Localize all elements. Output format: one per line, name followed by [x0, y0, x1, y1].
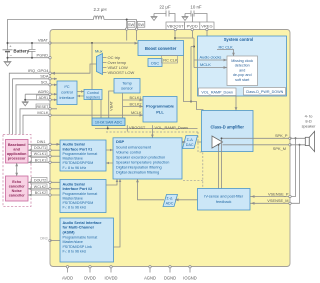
wire VBAT to SAR ADC [108, 91, 114, 118]
label AGND [144, 276, 156, 281]
dashed box host system [3, 135, 31, 207]
bottom supply pins [66, 266, 191, 273]
programmable PLL [143, 97, 177, 123]
wire VBAT internal to boost [50, 42, 138, 45]
wire VBAT [7, 38, 51, 44]
svg-text:VBOOST: VBOOST [129, 125, 146, 130]
temp sensor [114, 79, 140, 94]
svg-text:Missing clock: Missing clock [231, 59, 253, 63]
svg-text:VBAT: VBAT [38, 38, 49, 43]
svg-text:Digital decimation filtering: Digital decimation filtering [116, 171, 159, 175]
wire BCLK2 to PLL [123, 102, 143, 108]
system control box [198, 36, 287, 96]
svg-text:SW: SW [128, 22, 135, 27]
svg-text:IRQ_GPO4: IRQ_GPO4 [28, 68, 49, 73]
wire WCLK1 [28, 151, 60, 157]
svg-text:and: and [239, 68, 245, 72]
svg-text:SCL: SCL [41, 80, 50, 85]
wire WCLK2 [28, 184, 60, 190]
svg-text:VBAT: VBAT [108, 101, 113, 111]
wire system control to class-D [235, 96, 238, 111]
wire MCLK [23, 110, 143, 135]
wire VSENSE_M [250, 144, 301, 205]
svg-text:Class-D_PWR_DOWN: Class-D_PWR_DOWN [246, 90, 284, 94]
svg-text:Master/slave: Master/slave [63, 196, 83, 200]
svg-text:Audio Serial Interface: Audio Serial Interface [63, 221, 102, 225]
svg-text:canceller: canceller [9, 193, 26, 197]
svg-text:Echo: Echo [12, 180, 22, 184]
wire BCLK2 [28, 190, 60, 196]
arrows port1 to DSP [106, 149, 113, 165]
svg-text:Class-D amplifier: Class-D amplifier [210, 125, 244, 130]
svg-text:BCLK1: BCLK1 [129, 96, 141, 100]
wire SDA [13, 74, 57, 135]
svg-text:PGND: PGND [36, 52, 48, 57]
svg-text:AVDD: AVDD [62, 276, 73, 281]
audio serial interface port 2 [60, 180, 106, 213]
wires to speaker [290, 138, 305, 145]
svg-text:I²S/TDM/DSP/PDM: I²S/TDM/DSP/PDM [63, 201, 94, 205]
label OC trip [108, 55, 121, 60]
wire ADC to DSP [136, 179, 164, 200]
mux fault flags [95, 48, 107, 74]
wire inductor to SW pins [104, 19, 137, 28]
svg-text:ADR1: ADR1 [39, 96, 49, 100]
ground 10nF [182, 14, 189, 21]
label MCLK at PLL [131, 111, 142, 115]
svg-text:SPK_M: SPK_M [273, 146, 286, 151]
svg-text:DGND: DGND [164, 276, 176, 281]
capacitor 22uF VBOOST [154, 5, 175, 23]
DSP [113, 138, 182, 179]
svg-text:Audio Serial: Audio Serial [63, 182, 85, 186]
svg-text:Σ-Δ: Σ-Δ [187, 138, 194, 142]
svg-text:(ASIM): (ASIM) [63, 230, 76, 234]
VOL_RAMP_Down box [199, 88, 237, 96]
control registers [84, 90, 102, 100]
pin VREG [200, 22, 214, 30]
wire processor to canceller [15, 163, 18, 176]
svg-text:MCLK: MCLK [131, 111, 142, 115]
wire audio clocks [194, 55, 227, 62]
svg-text:Programmable format: Programmable format [63, 152, 98, 156]
svg-text:speaker: speaker [302, 123, 317, 128]
svg-text:WCLK1: WCLK1 [34, 152, 46, 156]
wire SPK_P [221, 133, 291, 138]
class-D amplifier box [202, 111, 254, 152]
inductor L1 2.2uH [93, 7, 106, 20]
wire IRQ_GPO4 [9, 64, 96, 135]
svg-text:OSC: OSC [151, 60, 160, 65]
wire port2 to DSP [106, 179, 118, 185]
wire MCLK system control [194, 62, 227, 69]
wire SW to boost [127, 30, 137, 41]
pin circles right edge [289, 137, 291, 204]
wire BCLK1 [28, 157, 60, 163]
pin VBOOST [166, 22, 185, 30]
svg-text:detection: detection [235, 64, 250, 68]
svg-text:AGND: AGND [144, 276, 156, 281]
svg-text:MCLK: MCLK [200, 62, 211, 67]
wire boost bottom rail [184, 56, 204, 111]
wire ADR1 [24, 94, 57, 102]
svg-text:canceller: canceller [9, 184, 26, 188]
dashed boundary bottom [183, 180, 203, 182]
svg-text:10 nF: 10 nF [190, 5, 202, 10]
svg-text:10-bit SAR ADC: 10-bit SAR ADC [95, 121, 122, 125]
svg-text:Audio clocks: Audio clocks [200, 55, 222, 60]
amplifier triangle [212, 136, 223, 148]
wire DAC to amplifier [197, 141, 212, 144]
I2C control interface [57, 81, 77, 105]
svg-text:IOVDD: IOVDD [105, 276, 118, 281]
svg-text:Battery: Battery [13, 49, 29, 54]
svg-text:BCLK2: BCLK2 [129, 102, 141, 106]
wire SAR ADC bottom node [95, 126, 198, 130]
svg-text:Speaker excursion protection: Speaker excursion protection [116, 156, 165, 160]
speaker [305, 131, 314, 151]
svg-text:Baseband: Baseband [8, 143, 26, 147]
svg-text:WCLK2: WCLK2 [34, 185, 46, 189]
svg-text:and: and [13, 147, 20, 151]
wire VBOOST rail down to class-D [190, 47, 194, 103]
label VBOOST LOW [108, 70, 135, 75]
svg-text:DVDD: DVDD [84, 276, 96, 281]
svg-text:processor: processor [8, 156, 26, 160]
svg-text:2.2 μH: 2.2 μH [93, 7, 106, 12]
svg-text:interface: interface [60, 95, 75, 100]
wire temp sensor to SAR ADC [122, 93, 124, 118]
svg-text:feedback: feedback [216, 200, 232, 204]
svg-text:DIN1: DIN1 [37, 140, 46, 144]
missing clock detection box [227, 56, 258, 86]
label RC CLK at OSC [162, 56, 178, 63]
label VOL_RAMP_Down tap [151, 125, 188, 138]
svg-text:Volume control: Volume control [116, 151, 141, 155]
svg-text:BCLK1: BCLK1 [35, 158, 46, 162]
wire ASIM input [40, 237, 60, 241]
arrows I2C to control registers [77, 90, 84, 97]
svg-text:Σ-Δ: Σ-Δ [167, 197, 174, 201]
svg-text:22 μF: 22 μF [159, 5, 171, 10]
feedback taps to IV-sense [218, 137, 223, 188]
wire DOUT1 [28, 145, 60, 151]
10-bit SAR ADC [92, 118, 125, 126]
svg-text:System control: System control [224, 37, 254, 42]
wire ASIM to DSP [114, 179, 122, 247]
label AVDD [62, 276, 73, 281]
svg-text:Programmable format: Programmable format [63, 236, 98, 240]
label VBOOST tap [127, 125, 146, 132]
wire DSP to DAC [182, 141, 186, 143]
svg-text:Programmable format: Programmable format [63, 192, 98, 196]
svg-text:Digital interpolation filterin: Digital interpolation filtering [116, 166, 162, 170]
pin circles left edge [49, 42, 51, 117]
svg-text:control: control [61, 90, 73, 95]
svg-text:IOGND: IOGND [183, 276, 196, 281]
sigma-delta DAC [183, 136, 198, 149]
svg-text:Control: Control [87, 91, 99, 95]
pin PVDD [185, 22, 200, 30]
svg-text:SPK_P: SPK_P [275, 133, 288, 138]
wire DOUT2 [28, 177, 60, 183]
svg-text:PLL: PLL [156, 110, 164, 115]
wire RC CLK in system control [217, 44, 235, 56]
pin circles audio ports [49, 143, 51, 242]
svg-text:ADR0: ADR0 [38, 89, 49, 94]
svg-text:Noise: Noise [12, 189, 22, 193]
wire IV-sense to ADC [175, 198, 198, 201]
svg-text:registers: registers [86, 95, 100, 99]
label DGND [164, 276, 176, 281]
battery B1 [3, 43, 30, 58]
svg-text:VOL_RAMP_Down: VOL_RAMP_Down [201, 90, 233, 94]
svg-text:sensor: sensor [121, 86, 133, 91]
svg-text:VREG: VREG [201, 24, 212, 29]
capacitor input bypass [29, 43, 36, 58]
svg-text:Programmable: Programmable [146, 104, 175, 109]
wire ADR0 [25, 89, 57, 96]
wire VBOOST pin to boost and rail [174, 30, 207, 68]
svg-text:VSENSE_M: VSENSE_M [267, 198, 288, 203]
wire RESET [20, 104, 57, 135]
svg-text:MCLK: MCLK [37, 110, 48, 115]
echo canceller noise canceller [6, 176, 29, 201]
pin SW 2 [137, 21, 145, 27]
svg-text:Fₛ: 8 to 96 kHz: Fₛ: 8 to 96 kHz [63, 206, 87, 210]
label DVDD [84, 276, 96, 281]
wire BCLK1 to PLL [123, 96, 143, 102]
svg-text:I²S/TDM/DSP/PDM: I²S/TDM/DSP/PDM [63, 161, 94, 165]
label Over temp [108, 60, 127, 65]
svg-text:I²S/TDM/DSP Link: I²S/TDM/DSP Link [63, 245, 92, 249]
capacitor 10nF PVDD/VREG [185, 5, 207, 23]
svg-text:Sound enhancement: Sound enhancement [116, 146, 152, 150]
svg-text:Speaker temperature protection: Speaker temperature protection [116, 161, 169, 165]
audio serial interface port 1 [60, 140, 106, 171]
svg-text:IV-sense and post-filter: IV-sense and post-filter [204, 195, 244, 199]
svg-text:RESET: RESET [37, 105, 50, 109]
OSC [148, 59, 162, 67]
svg-text:DOUT2: DOUT2 [34, 178, 46, 182]
svg-text:I²C: I²C [64, 84, 69, 89]
label VBAT LOW [108, 65, 129, 70]
svg-text:Boost converter: Boost converter [145, 46, 177, 51]
svg-text:DOUT1: DOUT1 [34, 146, 46, 150]
svg-text:Audio Serial: Audio Serial [63, 143, 85, 147]
svg-text:VBOOST: VBOOST [167, 24, 184, 29]
svg-text:VBOOST LOW: VBOOST LOW [108, 70, 135, 75]
svg-text:de-pop and: de-pop and [233, 73, 252, 77]
svg-text:RC CLK: RC CLK [219, 44, 234, 49]
wire control registers to SAR ADC [92, 43, 101, 118]
svg-text:Fₛ: 8 to 96 kHz: Fₛ: 8 to 96 kHz [63, 166, 87, 170]
svg-text:VOL_RAMP_Down: VOL_RAMP_Down [155, 125, 188, 130]
chip body U1 [50, 30, 290, 267]
ground 22uF [151, 14, 158, 21]
dashed digital-analog boundary horizontal [106, 131, 198, 133]
boost converter [138, 41, 184, 56]
svg-text:PVDD: PVDD [187, 24, 198, 29]
label IOVDD [105, 276, 118, 281]
IV-sense and post-filter feedback [198, 189, 251, 211]
wire PGND [7, 52, 51, 58]
pin circles top edge [126, 28, 209, 31]
svg-text:application: application [7, 152, 27, 156]
wire SPK_M [223, 145, 291, 151]
svg-text:BCLK2: BCLK2 [35, 191, 46, 195]
svg-text:DAC: DAC [186, 143, 194, 147]
ground battery [4, 58, 12, 66]
svg-text:Master/slave: Master/slave [63, 157, 83, 161]
svg-text:−: − [10, 53, 13, 58]
wire DIN1 [28, 140, 60, 146]
svg-text:Mux: Mux [95, 48, 103, 53]
dashed digital-analog boundary vertical [198, 132, 203, 189]
wire VSENSE_P [250, 137, 297, 198]
svg-text:SW: SW [138, 22, 145, 27]
svg-text:Fₛ: 8 to 96 kHz: Fₛ: 8 to 96 kHz [63, 249, 87, 253]
svg-text:DIN3: DIN3 [40, 237, 47, 241]
sigma-delta ADC [163, 195, 178, 207]
svg-text:soft start: soft start [235, 78, 249, 82]
svg-text:ADC: ADC [166, 202, 174, 206]
wire top rail battery to inductor [8, 20, 94, 46]
svg-text:Interface Port #1: Interface Port #1 [63, 147, 93, 151]
label IOGND [183, 276, 196, 281]
audio serial interface multi-channel ASIM [60, 218, 114, 262]
baseband and application processor [6, 140, 29, 164]
svg-text:Master/slave: Master/slave [63, 240, 83, 244]
svg-text:VSENSE_P: VSENSE_P [268, 191, 289, 196]
svg-text:SDA: SDA [40, 74, 49, 79]
label speaker [302, 113, 317, 128]
wire SCL [16, 80, 57, 135]
svg-text:Interface Port #2: Interface Port #2 [63, 187, 93, 191]
ground ADR [22, 102, 29, 106]
pin SW 1 [127, 21, 134, 27]
svg-text:DSP: DSP [116, 139, 125, 144]
svg-text:+: + [9, 44, 12, 49]
svg-text:RC CLK: RC CLK [163, 58, 178, 63]
svg-text:for Multi-Channel: for Multi-Channel [63, 226, 94, 230]
Class-D_PWR_DOWN box [244, 88, 286, 96]
